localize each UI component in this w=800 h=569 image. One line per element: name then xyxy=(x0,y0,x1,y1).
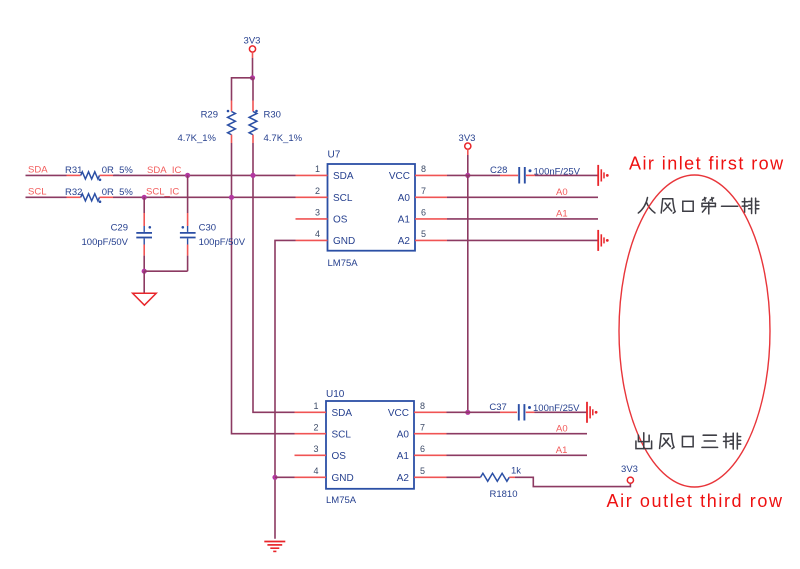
node U10 GND junction xyxy=(272,475,277,480)
wire junction to R30 xyxy=(252,78,254,101)
wire C28 to earth xyxy=(535,174,598,176)
svg-text:A0: A0 xyxy=(556,423,568,434)
svg-text:C29: C29 xyxy=(111,223,128,234)
svg-text:U7: U7 xyxy=(328,150,341,161)
ground signal bars xyxy=(264,542,285,552)
svg-text:OS: OS xyxy=(332,451,347,462)
node SDA/R30 junction xyxy=(250,173,255,178)
svg-text:4: 4 xyxy=(313,466,318,476)
svg-text:3: 3 xyxy=(315,208,320,218)
U7 pin 6 A1 xyxy=(398,208,447,226)
svg-text:2: 2 xyxy=(313,422,318,432)
wire C29 down xyxy=(143,256,145,272)
svg-text:7: 7 xyxy=(421,186,426,196)
svg-text:A2: A2 xyxy=(397,473,410,484)
node SCL/R29 junction xyxy=(229,195,234,200)
wire 3V3 to junction xyxy=(252,58,254,78)
wire U10 VCC row xyxy=(447,411,501,413)
svg-text:LM75A: LM75A xyxy=(328,258,359,269)
U7 pin 4 GND xyxy=(296,229,356,247)
wire C37 to earth xyxy=(535,411,587,413)
svg-text:U10: U10 xyxy=(326,389,345,400)
wire U7 A0 row xyxy=(447,196,598,198)
U7 pin 7 A0 xyxy=(398,186,447,204)
svg-text:0R_5%: 0R_5% xyxy=(102,187,134,198)
node U7 VCC junction xyxy=(465,173,470,178)
svg-text:C37: C37 xyxy=(489,402,506,413)
svg-text:LM75A: LM75A xyxy=(326,495,357,506)
svg-text:5: 5 xyxy=(420,466,425,476)
svg-text:Air inlet first row: Air inlet first row xyxy=(629,154,785,174)
U7 pin 1 SDA xyxy=(296,164,354,182)
op U7 box xyxy=(328,164,416,251)
svg-text:3V3: 3V3 xyxy=(244,36,261,47)
svg-text:R32: R32 xyxy=(65,187,82,198)
wire U10 A1 row xyxy=(447,454,588,456)
wire SCL left xyxy=(26,196,67,198)
earth U7 A2 xyxy=(598,230,608,251)
U10 pin 1 SDA xyxy=(295,401,353,419)
svg-text:A0: A0 xyxy=(397,430,410,441)
svg-text:A1: A1 xyxy=(556,209,568,220)
wire GND junction to pin4 xyxy=(275,476,295,478)
node SCL/C29 junction xyxy=(142,195,147,200)
svg-text:100pF/50V: 100pF/50V xyxy=(199,237,246,248)
node SDA/C30 junction xyxy=(185,173,190,178)
svg-text:1: 1 xyxy=(315,164,320,174)
capacitor C37 xyxy=(489,402,580,421)
annotation CJK air outlet three rows xyxy=(636,433,741,449)
svg-text:VCC: VCC xyxy=(389,171,410,182)
svg-text:3V3: 3V3 xyxy=(621,464,638,475)
svg-text:A1: A1 xyxy=(397,451,410,462)
wire R29 vertical SCL to U10 pin2 xyxy=(232,197,295,433)
wire U10 A0 row xyxy=(447,433,588,435)
wire U7 GND to vertical xyxy=(275,240,296,538)
svg-text:SCL: SCL xyxy=(333,193,353,204)
svg-text:R1810: R1810 xyxy=(490,489,518,500)
wire R30 to SDA xyxy=(252,143,254,175)
U10 pin 8 VCC xyxy=(388,401,447,419)
wire C30 down xyxy=(187,256,189,272)
earth U10 VCC xyxy=(587,402,597,423)
svg-text:5: 5 xyxy=(421,229,426,239)
node junction top xyxy=(250,75,255,80)
svg-text:OS: OS xyxy=(333,215,348,226)
resistor R31 xyxy=(65,165,133,181)
svg-text:SDA: SDA xyxy=(28,165,48,176)
wire SDA down to C30 xyxy=(187,175,189,213)
resistor R1810 xyxy=(481,466,522,501)
svg-text:0R_5%: 0R_5% xyxy=(102,165,134,176)
U10 pin 4 GND xyxy=(295,466,354,484)
node caps junction xyxy=(142,269,147,274)
svg-text:8: 8 xyxy=(421,164,426,174)
svg-text:3: 3 xyxy=(313,444,318,454)
earth U7 VCC xyxy=(598,165,608,186)
svg-text:Air outlet third row: Air outlet third row xyxy=(607,491,784,511)
svg-text:R29: R29 xyxy=(201,110,218,121)
wire 3V3 down to VCC xyxy=(467,155,469,175)
U7 pin 2 SCL xyxy=(296,186,353,204)
node U10 VCC junction xyxy=(465,410,470,415)
svg-text:1: 1 xyxy=(313,401,318,411)
wire to ground xyxy=(143,271,145,293)
U10 pin 7 A0 xyxy=(397,422,447,440)
svg-text:VCC: VCC xyxy=(388,408,409,419)
power 3V3 R1810 xyxy=(621,464,638,483)
svg-text:GND: GND xyxy=(333,236,355,247)
wire R1810 to 3V3 xyxy=(515,477,630,486)
svg-text:A2: A2 xyxy=(398,236,411,247)
svg-text:C30: C30 xyxy=(199,223,216,234)
wire branch to R29 xyxy=(232,78,253,101)
svg-text:A0: A0 xyxy=(398,193,411,204)
resistor R29 xyxy=(177,101,235,145)
svg-text:C28: C28 xyxy=(490,165,507,176)
svg-text:R31: R31 xyxy=(65,165,82,176)
red ellipse xyxy=(619,175,770,487)
svg-text:100pF/50V: 100pF/50V xyxy=(82,237,129,248)
svg-text:GND: GND xyxy=(332,473,354,484)
wire SDA left xyxy=(26,174,67,176)
wire SCL down to C29 xyxy=(143,197,145,213)
svg-text:SDA_IC: SDA_IC xyxy=(147,165,181,176)
svg-text:1k: 1k xyxy=(511,466,521,477)
capacitor C29 xyxy=(82,213,152,256)
wire R30 vertical SDA to U10 pin1 xyxy=(253,175,295,412)
svg-text:R30: R30 xyxy=(264,110,281,121)
svg-text:SDA: SDA xyxy=(333,171,354,182)
svg-text:4: 4 xyxy=(315,229,320,239)
svg-text:SCL: SCL xyxy=(28,187,46,198)
wire U7 VCC row xyxy=(447,174,500,176)
U10 pin 2 SCL xyxy=(295,422,352,440)
U7 pin 5 A2 xyxy=(398,229,447,247)
capacitor C28 xyxy=(490,165,581,183)
power 3V3 top xyxy=(244,36,261,59)
svg-text:SCL_IC: SCL_IC xyxy=(146,187,179,198)
svg-text:SDA: SDA xyxy=(332,408,353,419)
resistor R32 xyxy=(65,187,133,203)
svg-text:SCL: SCL xyxy=(332,430,352,441)
wire U7 A2 row xyxy=(447,239,598,241)
U7 pin 8 VCC xyxy=(389,164,447,182)
wire VCC vertical to U10 xyxy=(467,175,469,412)
wire SCL to U7 pin2 xyxy=(113,196,296,198)
svg-text:2: 2 xyxy=(315,186,320,196)
U10 pin 5 A2 xyxy=(397,466,447,484)
wire R29 to SCL xyxy=(231,143,233,197)
svg-text:6: 6 xyxy=(420,444,425,454)
ground triangle xyxy=(133,293,157,305)
svg-text:A1: A1 xyxy=(556,445,568,456)
wire U7 A1 row xyxy=(447,218,598,220)
svg-text:7: 7 xyxy=(420,422,425,432)
svg-text:A0: A0 xyxy=(556,187,568,198)
U10 pin 6 A1 xyxy=(397,444,447,462)
op U10 box xyxy=(326,401,414,489)
U7 pin 3 OS stub xyxy=(296,208,348,226)
resistor R30 xyxy=(249,101,303,145)
annotation CJK air inlet first row xyxy=(638,198,759,214)
svg-text:A1: A1 xyxy=(398,215,411,226)
wire U10 A2 to R1810 xyxy=(447,476,481,478)
svg-text:6: 6 xyxy=(421,208,426,218)
wire SDA to U7 pin1 xyxy=(113,174,296,176)
capacitor C30 xyxy=(180,213,246,256)
svg-text:4.7K_1%: 4.7K_1% xyxy=(177,133,216,144)
svg-text:8: 8 xyxy=(420,401,425,411)
power 3V3 U7 VCC xyxy=(459,133,476,155)
wire joining caps xyxy=(144,270,187,272)
svg-text:4.7K_1%: 4.7K_1% xyxy=(264,133,303,144)
U10 pin 3 OS stub xyxy=(295,444,347,462)
